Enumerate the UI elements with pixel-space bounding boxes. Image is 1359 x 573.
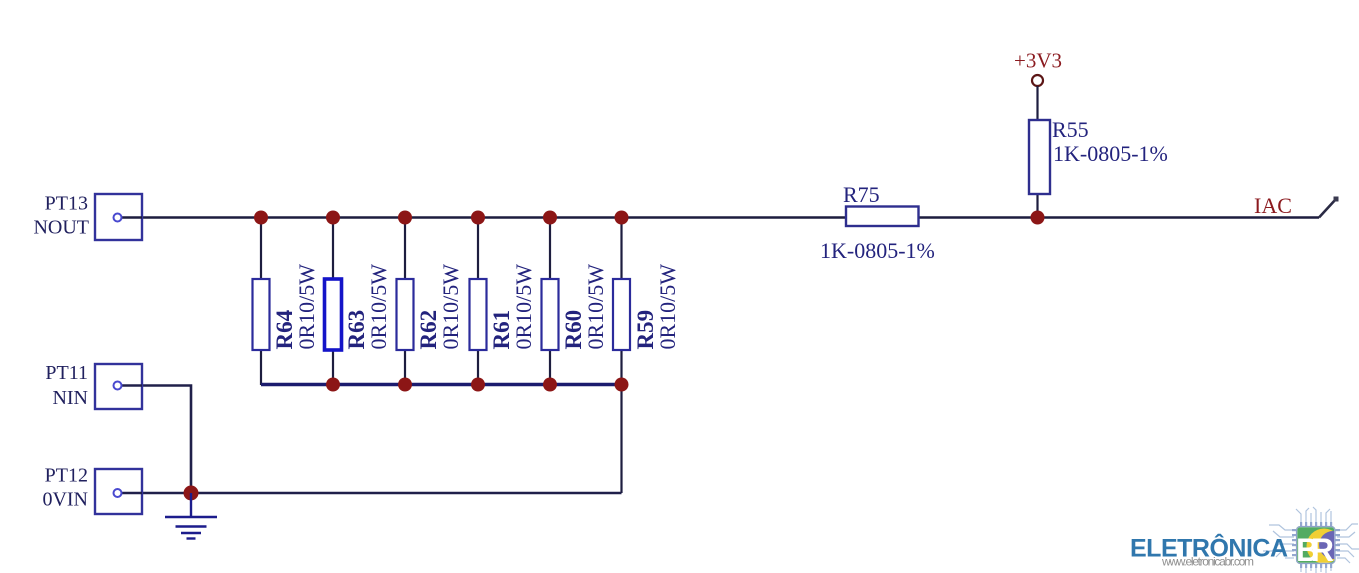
junction node on top rail at R62 (398, 211, 412, 225)
svg-text:0R10/5W: 0R10/5W (583, 264, 608, 350)
pin circle PT11 (114, 382, 122, 390)
wire: vertical branch R59 down to 0VIN net (620, 218, 622, 494)
pin circle PT12 (114, 489, 122, 497)
svg-text:PT11: PT11 (45, 362, 88, 384)
wire: vertical branch R62 (404, 218, 406, 386)
power +3V3 (1014, 49, 1062, 87)
wire: main horizontal net NOUT to IAC (122, 216, 1319, 218)
wire: PT12 pin stub (122, 492, 143, 494)
svg-text:NOUT: NOUT (33, 217, 89, 239)
junction node on top rail at R60 (543, 211, 557, 225)
EletronicaBR watermark logo (1130, 507, 1359, 573)
chip pins (1292, 522, 1340, 568)
junction node on bottom bus at R63 (326, 378, 340, 392)
ground (165, 493, 217, 539)
wire: PT11 pin stub (122, 384, 143, 386)
resistor R61 value 0R10/5W (470, 264, 537, 350)
power terminal circle (1032, 75, 1043, 86)
junction node on bottom bus at R61 (471, 378, 485, 392)
resistor R75 value 1K-0805-1% (820, 182, 935, 263)
svg-text:www.eletronicabr.com: www.eletronicabr.com (1161, 555, 1254, 569)
wire: PT11 NIN to junction (122, 386, 191, 494)
junction node on top rail at R61 (471, 211, 485, 225)
node IAC (1254, 193, 1339, 218)
resistor R59 value 0R10/5W (613, 264, 680, 350)
junction node on top rail at R63 (326, 211, 340, 225)
junction node at R55 bottom (1031, 211, 1045, 225)
junction node on bottom bus at R60 (543, 378, 557, 392)
svg-text:BR: BR (1296, 532, 1334, 568)
resistor R64 value 0R10/5W (253, 264, 320, 350)
svg-text:0R10/5W: 0R10/5W (655, 264, 680, 350)
svg-text:PT13: PT13 (45, 193, 88, 215)
resistor R63 value 0R10/5W (highlighted) (325, 264, 392, 350)
svg-text:1K-0805-1%: 1K-0805-1% (1053, 141, 1168, 166)
port PT13 NOUT (33, 193, 142, 241)
svg-text:0R10/5W: 0R10/5W (294, 264, 319, 350)
svg-text:R55: R55 (1052, 117, 1089, 142)
junction node on bottom bus at R59 (615, 378, 629, 392)
wire: vertical branch R61 (477, 218, 479, 386)
resistor R62 value 0R10/5W (397, 264, 464, 350)
port PT11 NIN (45, 362, 142, 409)
svg-text:0R10/5W: 0R10/5W (438, 264, 463, 350)
pin circle PT13 (114, 214, 122, 222)
svg-text:0R10/5W: 0R10/5W (366, 264, 391, 350)
junction node at ground tie (184, 486, 199, 501)
svg-text:R75: R75 (843, 182, 880, 207)
wire: vertical branch R60 (549, 218, 551, 386)
logo traces (1263, 507, 1359, 573)
svg-text:NIN: NIN (52, 387, 88, 409)
svg-text:+3V3: +3V3 (1014, 49, 1062, 73)
off-page connector slash (1319, 199, 1336, 218)
wire: vertical branch R63 (332, 218, 334, 386)
svg-text:IAC: IAC (1254, 193, 1292, 218)
wire: +3V3 to R55 to main net (1036, 86, 1038, 218)
svg-text:0R10/5W: 0R10/5W (511, 264, 536, 350)
svg-text:0VIN: 0VIN (42, 489, 88, 511)
wire: PT13 pin stub (122, 216, 143, 218)
port PT12 0VIN (42, 465, 142, 515)
junction node on bottom bus at R62 (398, 378, 412, 392)
junction node on top rail at R64 (254, 211, 268, 225)
wire: bottom bus joining resistor bank (261, 383, 622, 386)
junction node on top rail at R59 (615, 211, 629, 225)
resistor R55 value 1K-0805-1% (1029, 117, 1168, 194)
svg-text:1K-0805-1%: 1K-0805-1% (820, 238, 935, 263)
wire: vertical branch R64 (260, 218, 262, 386)
wire: PT12 0VIN horizontal net (122, 492, 622, 494)
resistor R60 value 0R10/5W (542, 264, 609, 350)
svg-text:PT12: PT12 (45, 465, 88, 487)
